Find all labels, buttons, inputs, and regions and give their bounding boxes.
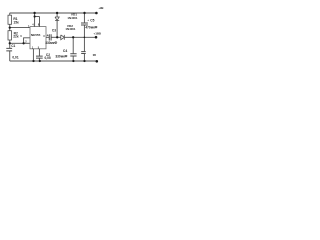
wire C2 to ground rail <box>38 58 40 61</box>
node junction rail/pin4 <box>33 12 35 14</box>
wire C5 riser from rail <box>83 13 85 23</box>
diode VD2 <box>61 35 65 40</box>
node junction rail/C5 <box>83 12 85 14</box>
node junction trigger branch <box>22 42 24 44</box>
wire R1 top stub <box>9 13 11 15</box>
capacitor C4 <box>70 54 76 56</box>
wire C3 to node A <box>51 36 57 38</box>
svg-text:0,05: 0,05 <box>45 56 51 60</box>
wire riser to pin6 <box>24 38 30 44</box>
node junction rail/VD1 <box>56 12 58 14</box>
svg-text:1N4001: 1N4001 <box>65 27 76 31</box>
wire pin3 output <box>46 36 49 38</box>
node junction rail/C4 <box>72 60 74 62</box>
node junction C5/output <box>84 37 86 39</box>
resistor R2 <box>8 31 12 40</box>
wire pin7 from R1/R2 junction <box>10 27 30 29</box>
wire pin2 <box>24 42 30 44</box>
capacitor C3 <box>49 34 51 40</box>
svg-text:С3: С3 <box>52 29 56 33</box>
wire VD2 to output terminal <box>64 36 95 38</box>
svg-text:22к: 22к <box>13 35 19 39</box>
node terminal +9V <box>95 12 98 15</box>
svg-text:0,01: 0,01 <box>12 55 18 59</box>
svg-text:0В: 0В <box>93 54 96 57</box>
node junction rail/C2 <box>39 60 41 62</box>
node junction rail/C6 <box>83 60 85 62</box>
resistor R1 <box>8 15 12 24</box>
svg-text:С1: С1 <box>11 44 15 48</box>
wire pin5 to C2 <box>38 49 40 56</box>
wire pin8 riser <box>39 17 41 27</box>
wire pin1 to ground <box>32 49 34 61</box>
wire top +9V rail <box>10 12 97 14</box>
wire pin4-pin8 tie <box>35 16 40 18</box>
node junction pin4/pin8 tie <box>34 15 36 17</box>
wire R1-R2 link <box>9 24 11 30</box>
wire pin4 riser to rail <box>34 13 36 27</box>
svg-text:+: + <box>47 34 49 38</box>
wire VD1 to node A <box>56 21 58 38</box>
node junction rail/pin1 <box>32 60 34 62</box>
wire R2-C1 link <box>9 40 11 48</box>
svg-text:+9В: +9В <box>98 6 103 10</box>
svg-text:330мкФ: 330мкФ <box>45 41 57 45</box>
wire C1 to ground rail <box>9 51 11 61</box>
wire C6 to ground rail <box>83 54 85 62</box>
node terminal 0V <box>96 60 99 63</box>
wire C5 down across output wire <box>83 25 85 52</box>
node junction C4/output <box>72 36 74 38</box>
svg-text:+18В: +18В <box>93 32 101 36</box>
capacitor C5 <box>81 23 88 25</box>
node A junction <box>56 36 58 38</box>
svg-text:470мкФ: 470мкФ <box>85 25 97 29</box>
wire node A to VD2 <box>57 36 61 38</box>
svg-text:1N4001: 1N4001 <box>67 16 78 20</box>
node junction R2/C1 <box>9 42 11 44</box>
node junction R1/R2 <box>9 26 11 28</box>
node terminal +18V <box>95 36 98 39</box>
svg-text:NE555: NE555 <box>31 33 41 37</box>
svg-text:С4: С4 <box>63 49 67 53</box>
capacitor C2 <box>36 56 43 58</box>
svg-text:+: + <box>87 18 89 22</box>
capacitor C6 <box>81 52 86 54</box>
svg-text:15к: 15к <box>13 20 19 24</box>
wire trigger/threshold branch <box>10 42 24 44</box>
wire VD1 riser from rail <box>56 13 58 17</box>
capacitor C1 <box>6 48 12 51</box>
svg-text:330мкФ: 330мкФ <box>55 55 67 59</box>
diode VD1 <box>55 17 59 21</box>
svg-text:С5: С5 <box>90 19 94 23</box>
wire bottom 0V rail <box>10 60 97 62</box>
IC U1 NE555 timer <box>30 27 46 49</box>
wire C4 to ground rail <box>72 56 74 61</box>
wire C4 riser <box>72 37 74 53</box>
